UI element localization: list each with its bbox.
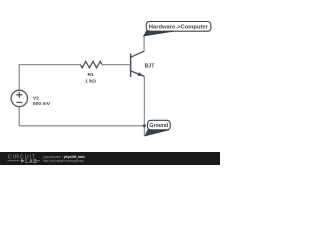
wire top horizontal left segment	[19, 64, 80, 66]
wire top horizontal right segment	[102, 64, 131, 66]
watermark CircuitLab logo	[8, 155, 41, 165]
svg-text:BJT: BJT	[145, 63, 156, 69]
watermark text	[43, 155, 85, 163]
svg-text:R1: R1	[87, 72, 94, 78]
node flag Hardware->Computer	[143, 22, 211, 37]
resistor R1	[80, 61, 102, 67]
svg-text:Ground: Ground	[149, 123, 168, 129]
svg-text:LAB: LAB	[25, 159, 37, 165]
svg-text:Hardware->Computer: Hardware->Computer	[149, 24, 209, 30]
transistor emitter arrowhead	[137, 72, 143, 76]
wire collector vertical	[143, 36, 145, 51]
svg-text:1 kΩ: 1 kΩ	[85, 78, 96, 84]
wire bottom horizontal	[19, 125, 144, 127]
svg-text:500 mV: 500 mV	[33, 101, 51, 107]
node junction dot	[143, 124, 146, 127]
label R1 value	[85, 72, 96, 84]
voltage source V2	[11, 90, 27, 106]
wire emitter vertical	[143, 76, 145, 136]
wire left vertical upper	[18, 64, 20, 90]
svg-text:http://circuitlab.com/cgv8owy: http://circuitlab.com/cgv8owy	[43, 159, 84, 163]
svg-text:V2: V2	[33, 95, 39, 101]
transistor Q BJT	[131, 51, 145, 77]
wire left vertical lower	[18, 107, 20, 126]
watermark bar	[0, 152, 220, 165]
label V2 value	[33, 95, 51, 107]
node flag Ground	[144, 120, 170, 136]
